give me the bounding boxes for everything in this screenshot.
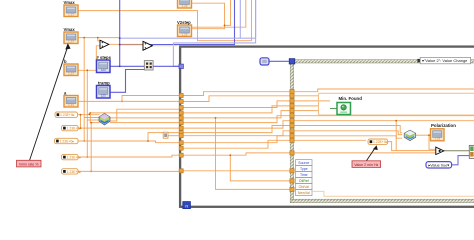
wire bundle v1: [225, 0, 231, 25]
wire loop-to-event 4: [182, 106, 292, 113]
wire loop-to-event 10: [182, 136, 292, 143]
node jp1b: [80, 127, 82, 129]
svg-text:Min. Found: Min. Found: [339, 96, 363, 101]
event structure top border: [290, 60, 474, 63]
svg-text:▾"Value 2": Value Change: ▾"Value 2": Value Change: [422, 58, 468, 63]
tunnel loop L6: [179, 121, 183, 125]
wire x116 jog: [110, 109, 180, 121]
wire P2 up branch: [80, 115, 82, 128]
wire Vmin to tri1: [98, 38, 100, 41]
wire band branch down: [395, 121, 397, 151]
node j7: [121, 101, 123, 103]
wire loop-to-event 7: [182, 121, 292, 128]
tunnel loop P4: [179, 153, 183, 157]
function merge signals: [99, 114, 110, 126]
event selector arrow: [417, 59, 420, 62]
wire diamond out: [416, 134, 431, 136]
tunnel event T11: [290, 138, 294, 142]
wire x90 branch: [90, 113, 99, 123]
node jp3: [86, 156, 88, 158]
operator T1 compare: [100, 40, 109, 48]
node j3c: [119, 65, 121, 67]
wire loop-to-event 3: [182, 101, 292, 108]
local variable Value true: [426, 162, 452, 168]
wire loop-to-event 9: [182, 131, 292, 136]
wire lav drop: [239, 0, 241, 38]
wire bool out: [444, 150, 470, 152]
wire loop-to-event 6: [182, 116, 292, 123]
wire blue band: [120, 0, 235, 45]
wire tramp out: [110, 70, 144, 93]
node j9: [428, 134, 430, 136]
wire y112 band: [90, 112, 180, 114]
node jv: [395, 120, 397, 122]
tunnel loop L5: [179, 116, 183, 120]
svg-text:tramp: tramp: [98, 81, 110, 86]
wire P6 out: [388, 142, 436, 151]
node jp2: [83, 140, 85, 142]
node jp1: [80, 114, 82, 116]
tunnel event T15: [290, 187, 294, 191]
svg-text:Vmax: Vmax: [64, 27, 76, 32]
tunnel loop L8: [179, 131, 183, 135]
svg-text:Value 2 min Hz: Value 2 min Hz: [354, 163, 378, 167]
svg-text:1.23: 1.23: [68, 39, 74, 43]
svg-text:Type: Type: [300, 167, 308, 171]
svg-text:1.23E+0▸: 1.23E+0▸: [67, 156, 82, 160]
terminal a: [64, 96, 78, 108]
numeric constant P2: [62, 125, 82, 130]
svg-text:123: 123: [101, 68, 106, 72]
svg-text:1.23E+0▸: 1.23E+0▸: [373, 140, 388, 144]
wire P4 up branch: [86, 120, 88, 157]
wire diamond branch: [429, 135, 436, 149]
wire steps to QR: [110, 65, 144, 67]
wire to diamond top: [295, 126, 403, 133]
wire V2step out: [192, 0, 246, 27]
wire a out: [78, 100, 180, 102]
terminal Polarization term: [431, 129, 445, 141]
node j2: [150, 45, 152, 47]
wire loop-to-event 2: [182, 96, 292, 102]
wire P3 up branch: [83, 118, 85, 142]
svg-text:1.23: 1.23: [68, 12, 74, 16]
annotation label Value 2 min Hz: [352, 161, 381, 168]
annotation label Vmin rate: [17, 160, 42, 167]
svg-text:V2step: V2step: [177, 20, 191, 25]
svg-text:OldVal: OldVal: [299, 185, 309, 189]
svg-text:1.23: 1.23: [68, 71, 74, 75]
svg-text:b: b: [64, 59, 67, 64]
wire blue riser: [119, 0, 121, 66]
tunnel event T8: [290, 123, 294, 127]
svg-text:1.23E+0▸: 1.23E+0▸: [67, 127, 82, 131]
wire loop-to-event 11: [182, 140, 292, 148]
svg-text:1.23E+0▸: 1.23E+0▸: [60, 113, 75, 117]
svg-text:1.23E+0▸: 1.23E+0▸: [60, 139, 75, 143]
terminal tramp: [97, 86, 111, 99]
icon value-ref: [260, 58, 269, 65]
wire lav loop-in: [173, 0, 255, 66]
event tunnel blue: [289, 59, 295, 64]
decoration frame: [319, 93, 474, 115]
tunnel event T14: [290, 179, 294, 183]
terminal steps: [97, 60, 111, 73]
wire P4 corridor: [182, 153, 292, 155]
svg-text:CtlRef: CtlRef: [299, 179, 309, 183]
tunnel event T13: [290, 169, 294, 173]
svg-text:Vmax: Vmax: [64, 0, 76, 5]
wire const2 out: [168, 135, 180, 137]
wire reg to event: [269, 60, 289, 62]
wire loop-to-event 5: [182, 111, 292, 118]
while loop border: [180, 47, 474, 207]
wire P2 out: [78, 127, 180, 129]
terminal V2step: [178, 25, 192, 37]
numeric constant P1: [55, 112, 78, 117]
annotation arrow 1: [30, 43, 71, 160]
wire P5 up branch: [90, 123, 92, 172]
tunnel event T10: [290, 134, 294, 138]
svg-text:1.23: 1.23: [182, 32, 188, 36]
operator OR: [436, 147, 444, 155]
terminal V2step-top: [178, 0, 192, 8]
iteration terminal: [183, 202, 191, 209]
svg-text:1.23: 1.23: [182, 4, 188, 8]
node j3b: [119, 37, 121, 39]
svg-text:Polarization: Polarization: [431, 123, 456, 128]
node j3: [119, 44, 121, 46]
constant array: [163, 132, 168, 138]
wire tri2 out: [153, 45, 177, 47]
wire b to tri1 lower: [78, 46, 100, 71]
wire stub 105: [295, 105, 319, 107]
wire stub 100: [295, 100, 330, 102]
annotation arrow 2: [367, 145, 378, 160]
wire green stub: [330, 108, 337, 110]
numeric constant P6: [368, 139, 388, 144]
event structure bottom border: [290, 199, 474, 202]
wire QR out: [153, 65, 180, 67]
tunnel loop L9: [179, 134, 183, 138]
terminal Vmax: [64, 5, 78, 17]
tunnel event T2: [290, 94, 294, 98]
tunnel loop L11: [179, 146, 183, 150]
tunnel event T7: [290, 119, 294, 123]
tunnel event T1: [290, 90, 294, 94]
tunnel loop L3: [179, 106, 183, 110]
wire P5 out: [78, 170, 180, 172]
svg-text:▸Value true▾: ▸Value true▾: [428, 163, 449, 167]
wire P4 out: [78, 155, 180, 157]
operator T2 compare: [143, 41, 152, 50]
event data node: [296, 160, 312, 196]
node jA: [215, 117, 217, 119]
wire top long wire: [295, 89, 474, 92]
function Q&R: [144, 61, 153, 70]
wire band 140: [295, 139, 366, 141]
wire loop-to-event 1: [182, 92, 292, 96]
tunnel event T3: [290, 99, 294, 103]
boolean LED Min.Found: [337, 103, 351, 115]
numeric constant P5: [62, 169, 82, 174]
wire to triangle: [295, 152, 436, 154]
tunnel loop L2: [179, 100, 183, 104]
node jB: [229, 154, 231, 156]
tunnel event T5: [290, 109, 294, 113]
wire V2step-top loopback: [191, 3, 225, 29]
svg-text:Vmin rate %: Vmin rate %: [19, 162, 39, 166]
wire P1 to cube: [78, 114, 100, 116]
svg-text:1.23E+0▸: 1.23E+0▸: [67, 170, 82, 174]
wire drop wire A: [216, 118, 293, 189]
tunnel loop L1: [179, 94, 183, 98]
wire b down to cube: [87, 70, 99, 120]
wire P3 out: [78, 141, 180, 143]
tunnel event T6: [290, 114, 294, 118]
node jp4b: [90, 122, 92, 124]
node j8: [147, 140, 149, 142]
wire cube out: [110, 117, 180, 119]
wire low wire: [182, 170, 292, 172]
tunnel event T9: [290, 129, 294, 133]
svg-text:n: n: [185, 203, 188, 208]
node j1: [224, 25, 226, 27]
node j6b: [89, 113, 91, 115]
svg-text:Source: Source: [298, 161, 309, 165]
wire Vmin out: [78, 37, 119, 39]
node j4: [83, 37, 85, 39]
wire long 120: [295, 120, 474, 122]
wire stub 110: [295, 110, 319, 112]
tunnel loop L4: [179, 111, 183, 115]
svg-text:Time: Time: [300, 173, 308, 177]
clipped node: [469, 145, 474, 158]
svg-text:NewVal: NewVal: [298, 191, 310, 195]
wire tri1 out: [109, 43, 143, 45]
wire lav band: [120, 0, 256, 38]
function in-range-coerce: [404, 130, 416, 140]
wire to diamond mid: [295, 131, 403, 135]
node jp4: [90, 171, 92, 173]
svg-text:# steps: # steps: [97, 55, 112, 60]
wire const2 feed: [148, 133, 180, 141]
svg-text:1.23: 1.23: [68, 103, 74, 107]
svg-text:123: 123: [101, 94, 106, 98]
wire valuetrue out: [452, 156, 470, 165]
node j5: [86, 69, 88, 71]
wire Vmax to band: [78, 0, 252, 41]
node j6: [89, 112, 91, 114]
wire stub 95: [295, 95, 319, 97]
tunnel loop L10: [179, 141, 183, 145]
terminal b: [64, 64, 78, 76]
wire loop-to-event 8: [182, 126, 292, 133]
numeric constant P4: [62, 154, 82, 159]
tunnel loop low: [179, 169, 183, 173]
terminal Vmin: [64, 32, 78, 44]
wire to diamond low: [295, 136, 403, 138]
wire drop wire B: [230, 155, 292, 181]
tunnel event T4: [290, 104, 294, 108]
event structure left border: [290, 60, 293, 203]
numeric constant P3: [55, 138, 79, 143]
event selector: [420, 57, 470, 63]
svg-text:1.23: 1.23: [434, 137, 440, 141]
wire long 115: [295, 115, 474, 117]
tunnel loop L7: [179, 126, 183, 130]
wire y95 feed: [122, 96, 180, 102]
tunnel event T12: [290, 151, 294, 155]
wire y122 out: [110, 122, 180, 124]
node j2b: [97, 37, 99, 39]
tunnel loop blue: [179, 64, 183, 68]
wire Vmin down to cube: [84, 38, 99, 118]
wire NewVal out: [312, 191, 474, 196]
